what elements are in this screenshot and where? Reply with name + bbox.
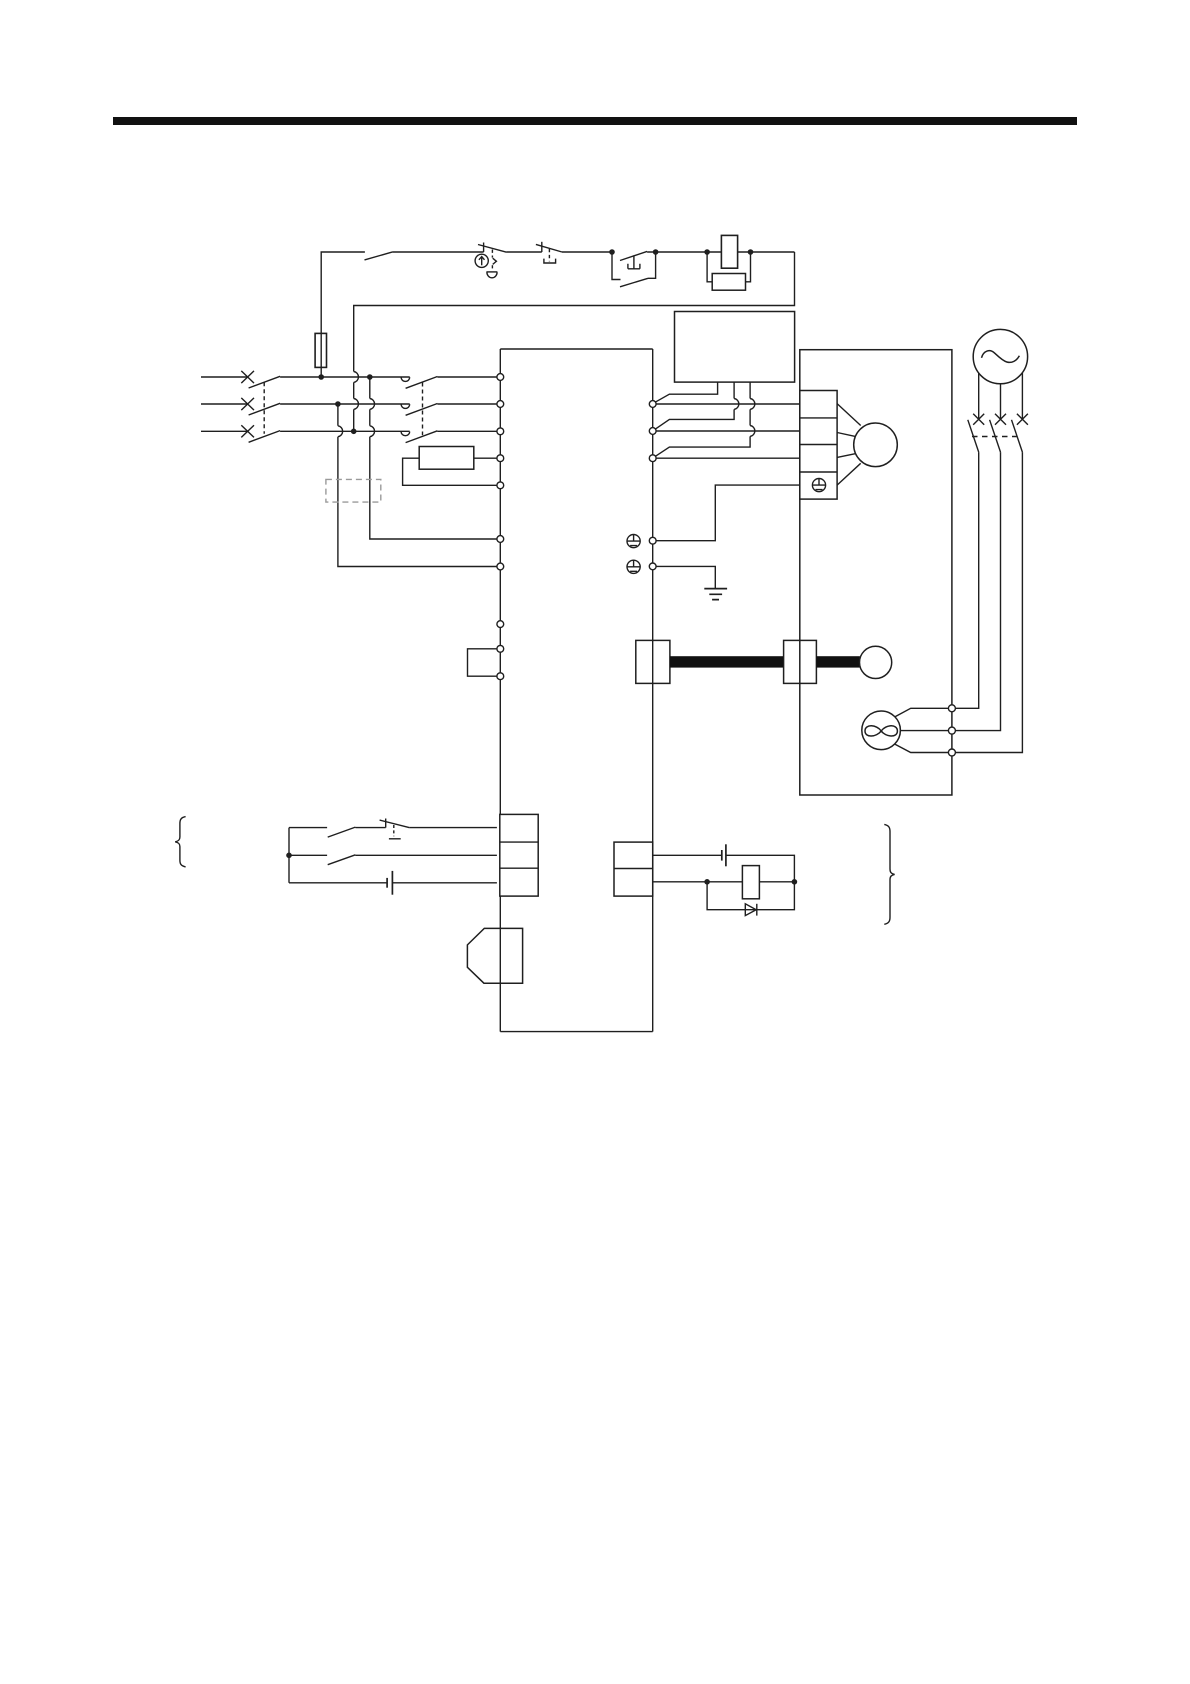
junction node (704, 249, 710, 255)
surge absorber branch wires (707, 252, 750, 282)
diode D (745, 904, 757, 916)
wire terminal B1 to switch (955, 452, 978, 708)
junction node L1 fuse tap (318, 374, 324, 380)
regenerative option resistor wiring (403, 458, 497, 485)
wire block V to winding (837, 433, 855, 437)
wire amplifier PE to motor earth (656, 485, 800, 541)
wire L3 to contactor (280, 430, 410, 432)
CN1B divider (614, 868, 653, 870)
contactor coil MC (721, 235, 737, 268)
page top rule (113, 117, 1077, 125)
switch mechanical link (972, 436, 1018, 438)
protective earth symbol PE1 (627, 535, 640, 548)
phase L3 supply wire (201, 430, 248, 432)
contactor MC pole 1 (401, 377, 437, 389)
encoder shaft cable (816, 656, 860, 667)
junction node (609, 249, 615, 255)
wire relay to node (759, 881, 794, 883)
contactor MC pole 2 (401, 404, 437, 416)
wire source to pole 1 (978, 373, 980, 419)
terminal P (497, 455, 504, 462)
switch contact (servo-on) (328, 855, 356, 865)
terminal V (649, 428, 656, 435)
terminal L21 (497, 563, 504, 570)
brake power supply (AC source) (973, 329, 1027, 383)
wire hop over L2 (370, 399, 375, 410)
servo amplifier outline left bus (499, 349, 501, 1032)
terminal block dividers (800, 418, 837, 472)
fuse F1 (315, 333, 326, 367)
wire box lead to U (655, 382, 717, 402)
wire L1 tap to L11 (370, 377, 497, 539)
junction node (653, 249, 659, 255)
terminal D (497, 673, 504, 680)
wire amplifier PE to earth ground (656, 566, 715, 588)
NFB mechanical link (263, 382, 265, 434)
wire hop over L3 (338, 426, 343, 437)
pushbutton S2 (NC with manual actuator) (536, 242, 562, 263)
terminal W (649, 455, 656, 462)
wire hop over U (750, 399, 755, 410)
terminal C (497, 482, 504, 489)
battery VDD 24V (387, 871, 392, 895)
ground (704, 589, 727, 600)
AC sine symbol (982, 351, 1020, 363)
junction node (704, 879, 710, 885)
wire to CN1 pin SG (392, 882, 497, 884)
terminal PE1 (649, 537, 656, 544)
wire brake B2 lead (895, 744, 949, 752)
twist-release indicator (circled arrow) (475, 254, 488, 267)
terminal P2 (497, 645, 504, 652)
terminal B2 (948, 749, 955, 756)
wire U output to motor (656, 403, 800, 405)
wire brake common lead (900, 730, 948, 732)
brake release switch pole 3 (1012, 414, 1028, 452)
wire V output to motor (656, 430, 800, 432)
terminal B common (948, 727, 955, 734)
wire hop over L3 (370, 426, 375, 437)
circuit breaker NFB pole 3 (241, 425, 280, 442)
circuit breaker NFB pole 2 (241, 398, 280, 415)
wire hop over L1 (354, 372, 359, 383)
junction node L3 control return (351, 429, 357, 435)
diode branch wire (707, 882, 794, 910)
wire box lead to W (655, 382, 750, 456)
wire CN1B +24V row (653, 854, 722, 856)
wire terminal Bc to switch (955, 452, 1000, 730)
wire block W to winding (837, 454, 855, 458)
wire EMG input row (289, 827, 327, 829)
motor terminal block (800, 391, 837, 500)
junction node (748, 249, 754, 255)
servo amplifier outline bottom (500, 1031, 652, 1033)
terminal B1 (948, 705, 955, 712)
encoder connector (784, 640, 817, 683)
wire MC to amplifier L3 (437, 430, 497, 432)
switch contact (EMG input) (328, 827, 356, 837)
wire to CN1 pin EMG (409, 827, 497, 829)
wire terminal B2 to switch (955, 452, 1022, 752)
wire S2 to ON pushbutton (562, 251, 612, 253)
terminal U (649, 401, 656, 408)
wire hop over L2 (354, 399, 359, 410)
wire battery to relay (726, 855, 795, 882)
emergency stop pushbutton EMG (NC) (478, 243, 507, 278)
output group brace (884, 824, 894, 924)
wire S1 to emergency stop (392, 251, 484, 253)
electromagnetic brake B (862, 711, 901, 750)
protective earth symbol (motor) (812, 479, 825, 492)
terminal jumper P-D (468, 649, 497, 676)
wire control return to L3 (354, 252, 795, 431)
connector CN1B block (614, 842, 653, 896)
input bus wire (288, 828, 290, 883)
surge absorber (712, 274, 745, 291)
wire block PE to winding (837, 463, 861, 485)
junction node L1 tap (367, 374, 373, 380)
encoder cable (670, 656, 784, 667)
terminal L2 (497, 401, 504, 408)
wire to CN1 pin SON (355, 854, 497, 856)
servo amplifier outline right bus (652, 349, 654, 1032)
brake release switch pole 1 (968, 414, 984, 452)
motor windings M (854, 423, 898, 467)
battery RA 24VDC (722, 844, 726, 866)
wire source to pole 2 (1000, 384, 1002, 420)
regenerative brake option resistor (419, 447, 474, 470)
servo amplifier outline top (500, 348, 652, 350)
wire block U to winding (837, 404, 861, 426)
wire source to pole 3 (1021, 373, 1023, 419)
terminal L11 (497, 536, 504, 543)
controller unit box (675, 312, 795, 383)
wire EMG to S2 (507, 251, 542, 253)
MC auxiliary self-holding contact (612, 252, 656, 287)
wire PB to contactor coil (647, 251, 794, 253)
wire W output to motor (656, 457, 800, 459)
encoder (860, 646, 892, 678)
wire box lead to V (655, 382, 734, 429)
wire brake B1 lead (895, 708, 949, 717)
junction node L2 tap (335, 401, 341, 407)
phase L2 supply wire (201, 403, 248, 405)
wire SON input row (289, 854, 327, 856)
CN1A dividers (500, 842, 538, 868)
wire hop over U (734, 399, 739, 410)
relay coil RA (742, 866, 759, 899)
junction node (792, 879, 798, 885)
junction node (286, 853, 292, 859)
terminal L1 (497, 374, 504, 381)
terminal N (497, 621, 504, 628)
phase L1 supply wire (201, 376, 248, 378)
connector CN1A block (500, 814, 538, 896)
terminal L3 (497, 428, 504, 435)
connector CN2 (636, 640, 670, 683)
circuit breaker NFB pole 1 (241, 371, 280, 388)
wire L2 to contactor (280, 403, 410, 405)
wire CN1B MBR row (653, 881, 743, 883)
contactor MC pole 3 (401, 431, 437, 443)
protective earth symbol PE2 (627, 560, 640, 573)
wire MC to amplifier L1 (437, 376, 497, 378)
ON pushbutton PB (NO) (620, 251, 647, 268)
connector CN3 (D-sub) (467, 928, 522, 983)
switch S1 contact blade (365, 252, 393, 260)
wire L2 tap to L21 (338, 404, 497, 567)
servo motor outline box (800, 350, 952, 795)
brake release switch pole 2 (990, 414, 1006, 452)
terminal PE2 (649, 563, 656, 570)
wire MC to amplifier L2 (437, 403, 497, 405)
brake coil loops (865, 726, 897, 736)
forced stop contact with actuator (380, 819, 410, 839)
wire control hot riser from L1 fuse (321, 252, 365, 377)
wire L1 to contactor (280, 376, 410, 378)
MC mechanical link (422, 383, 424, 436)
wire hop over V (750, 426, 755, 437)
input group brace (175, 817, 185, 867)
wire battery row (289, 882, 387, 884)
power-factor reactor option box (dashed) (326, 479, 381, 502)
wire to forced-stop contact (355, 827, 385, 829)
